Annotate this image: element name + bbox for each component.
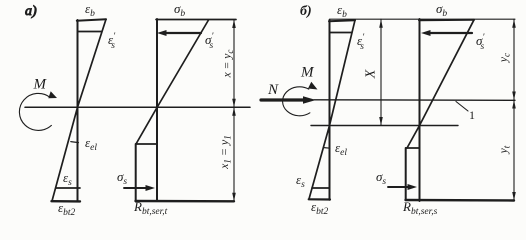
strain diagram b: bottom edge (309, 198, 330, 200)
moment M arrowhead diagram a (48, 91, 57, 98)
stress diagram a: compression stress slant line (157, 20, 209, 108)
sigma_s arrow diagram b (388, 186, 409, 188)
svg-text:M: M (300, 65, 315, 81)
right dimension line y_c / y_t diagram b (513, 19, 515, 201)
dimension line x=y_c / x1=y1 diagram a (233, 20, 235, 202)
strain diagram a: bottom edge (52, 200, 81, 203)
svg-text:a): a) (25, 4, 37, 19)
stress diagram a: tension elastic slant (136, 108, 157, 145)
stress diagram a: bottom edge with extension to dimension line (136, 200, 235, 203)
stress diagram a: R_bt level tick (136, 143, 157, 145)
neutral axis line diagram b (311, 125, 458, 127)
strain diagram a: top edge (77, 19, 106, 20)
strain diagram b: vertical axis (329, 20, 331, 200)
strain diagram a: eps_s level line (56, 187, 80, 189)
stress diagram a: top edge with extension to dimension line (156, 19, 236, 21)
svg-text:M: M (33, 77, 48, 93)
stress diagram a: vertical axis (156, 19, 158, 201)
stress diagram b: compression stress slant line (420, 20, 475, 126)
svg-text:б): б) (300, 4, 312, 19)
svg-text:x1 = y1: x1 = y1 (217, 135, 233, 170)
top extension line diagram b (330, 18, 516, 20)
centroid axis line (line 1) diagram b (314, 99, 515, 102)
stress diagram b: tension elastic slant (407, 126, 420, 149)
strain diagram b: eps_s level line (312, 187, 330, 189)
zero line (neutral axis) diagram a (25, 106, 250, 108)
svg-text:1: 1 (469, 108, 475, 122)
svg-text:N: N (267, 82, 279, 98)
moment M arrowhead diagram b (308, 82, 318, 90)
strain diagram b: top edge (329, 20, 355, 21)
moment M arc diagram b (283, 87, 310, 116)
svg-text:X: X (364, 69, 379, 79)
strain diagram a: vertical axis (77, 20, 79, 202)
stress diagram b: bottom edge with extension to dimension line (406, 199, 515, 202)
strain diagram a: eps_el tick (71, 142, 79, 143)
strain diagram b: eps_el tick (324, 147, 330, 150)
X dimension line diagram b (380, 19, 382, 125)
stress diagram b: vertical axis (419, 19, 421, 201)
moment M arc diagram a (19, 93, 51, 130)
stress diagram a: constant tension block left edge (135, 144, 137, 201)
svg-text:x = yc: x = yc (222, 50, 236, 79)
strain diagram b: eps'_s level line (330, 32, 352, 34)
strain diagram b: strain distribution line (309, 20, 355, 199)
sigma'_s arrow diagram a (163, 32, 201, 34)
sigma_s arrow diagram a (124, 187, 147, 189)
leader line to label 1 (456, 102, 468, 112)
strain diagram a: strain distribution line (52, 19, 106, 201)
stress diagram b: R_bt level tick (406, 147, 420, 149)
stress diagram b: top edge (419, 19, 474, 22)
stress diagram b: constant tension block left edge (405, 148, 407, 200)
strain diagram a: eps'_s level line (78, 31, 102, 33)
N force arrow diagram b (261, 98, 305, 101)
sigma'_s arrow diagram b (427, 32, 472, 34)
